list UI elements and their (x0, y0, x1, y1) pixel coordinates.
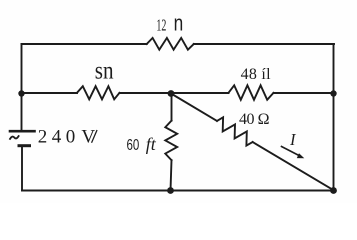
wire middle vertical lower segment (171, 160, 172, 190)
voltage source V1 240V: long plate (10, 130, 35, 133)
svg-text:240: 240 (38, 127, 76, 148)
resistor R4 60 Ohm (label "60 ft") vertical zigzag (165, 121, 177, 161)
voltage source V1: tilde mark (10, 136, 19, 139)
wire middle horizontal center segment (120, 92, 229, 94)
resistor R5 40 Ohm zigzag on diagonal (217, 117, 253, 145)
svg-text:sn: sn (95, 55, 114, 84)
scan artifact slash on V (92, 131, 97, 143)
wire left vertical (battery to bottom corner) (21, 146, 23, 191)
wire diagonal upper segment (171, 94, 217, 121)
wire top-left horizontal segment (22, 43, 147, 45)
node right middle junction dot (330, 90, 336, 96)
resistor R3 48 Ohm (label "48 il") zigzag (229, 85, 274, 100)
node bottom middle junction dot (167, 187, 174, 194)
current arrow I head (297, 153, 305, 158)
svg-text:n: n (174, 11, 184, 36)
svg-text:40 Ω: 40 Ω (239, 111, 270, 128)
wire middle horizontal left segment (22, 92, 78, 94)
wire diagonal lower segment (253, 142, 334, 191)
wire left vertical (top corner to battery) (21, 44, 23, 131)
svg-text:I: I (289, 130, 297, 149)
svg-text:12: 12 (156, 16, 166, 35)
wire middle vertical upper segment (171, 94, 173, 121)
wire right vertical (333, 44, 335, 191)
svg-text:48 íl: 48 íl (241, 66, 272, 83)
svg-text:ft: ft (146, 134, 157, 154)
current arrow I shaft (282, 147, 300, 156)
voltage source V1: short plate (19, 144, 30, 147)
node middle junction dot (168, 90, 175, 97)
resistor R2 5 Ohm (label "sn") zigzag (77, 86, 120, 99)
wire bottom horizontal (22, 190, 334, 192)
node left junction dot (18, 90, 24, 96)
node bottom right junction dot (330, 187, 337, 194)
wire top-right horizontal segment (194, 43, 334, 45)
wire middle horizontal right segment (274, 92, 334, 94)
resistor R1 12 Ohm (label "12 n") zigzag (147, 38, 194, 50)
svg-text:60: 60 (127, 137, 140, 154)
